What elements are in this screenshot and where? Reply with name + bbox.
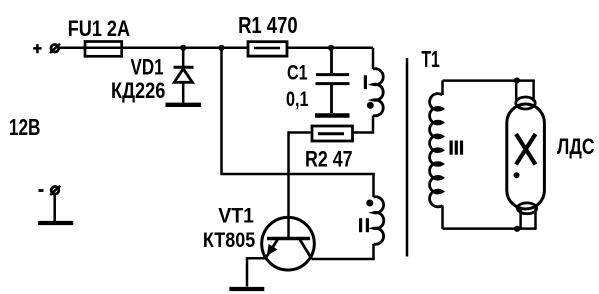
wire fuse to R1 (+ rail) [123, 47, 247, 50]
wire winding III to lamp bottom [443, 227, 537, 230]
label I [364, 75, 367, 89]
svg-text:12В: 12В [9, 114, 41, 140]
svg-text:КД226: КД226 [111, 78, 165, 103]
resistor R2 [312, 126, 353, 141]
svg-text:Т1: Т1 [421, 46, 440, 72]
lamp pin top left [515, 81, 518, 102]
svg-text:R1 470: R1 470 [238, 12, 298, 38]
transistor VT1 [262, 217, 315, 270]
lamp dot [514, 172, 520, 178]
label II [359, 218, 369, 232]
svg-text:VD1: VD1 [131, 55, 164, 80]
transformer T1 winding II [374, 197, 384, 244]
terminal X2 - (negative input) [39, 186, 61, 195]
svg-text:ЛДС: ЛДС [557, 134, 595, 159]
polarity dot winding I [367, 102, 374, 109]
junction node B [218, 45, 224, 51]
wire emitter to ground [247, 258, 266, 286]
ground (diode common) [166, 103, 202, 107]
lamp pin bottom right [534, 207, 537, 229]
wire + terminal to fuse [59, 47, 84, 50]
label III [450, 141, 464, 155]
ground (emitter) [229, 287, 264, 291]
svg-text:R2 47: R2 47 [305, 147, 353, 172]
wire rail to winding II (node B down, across) [222, 48, 374, 197]
lamp electrode top [516, 97, 535, 109]
wire winding III to lamp top [443, 79, 535, 82]
lamp pin bottom left [519, 207, 522, 229]
transformer T1 core [406, 58, 409, 257]
junction node C (C1 top) [328, 45, 334, 51]
lamp symbol X [516, 134, 536, 165]
wire R2 to transistor base [289, 133, 311, 238]
lamp pin top right [532, 81, 535, 102]
junction node A [180, 45, 186, 51]
junction (lamp bottom pins) [514, 226, 520, 232]
junction (lamp top pins) [514, 77, 520, 83]
lamp EL1 tube [507, 104, 545, 209]
lamp electrode bottom [517, 203, 536, 214]
wire winding I to R2 [353, 116, 374, 133]
capacitor C1 [316, 48, 350, 113]
terminal X1 + (positive input) [33, 44, 60, 54]
svg-text:КТ805: КТ805 [203, 228, 255, 252]
wire minus to ground [53, 194, 56, 222]
node bar (C1 bottom) [315, 113, 350, 117]
wire R1 to corner [288, 47, 374, 50]
wire rail corner down to winding I [372, 48, 375, 69]
svg-text:C1: C1 [287, 62, 308, 85]
svg-text:0,1: 0,1 [286, 88, 309, 111]
svg-text:FU1 2A: FU1 2A [68, 16, 130, 41]
polarity dot winding II [366, 200, 373, 207]
ground (input common) [38, 221, 73, 225]
transformer T1 winding III [430, 81, 443, 229]
fuse FU1 [84, 42, 124, 57]
svg-text:VT1: VT1 [218, 203, 254, 227]
transformer T1 winding I [373, 69, 383, 116]
diode VD1 [174, 48, 194, 103]
wire winding II to collector [312, 244, 374, 259]
resistor R1 [248, 42, 287, 56]
